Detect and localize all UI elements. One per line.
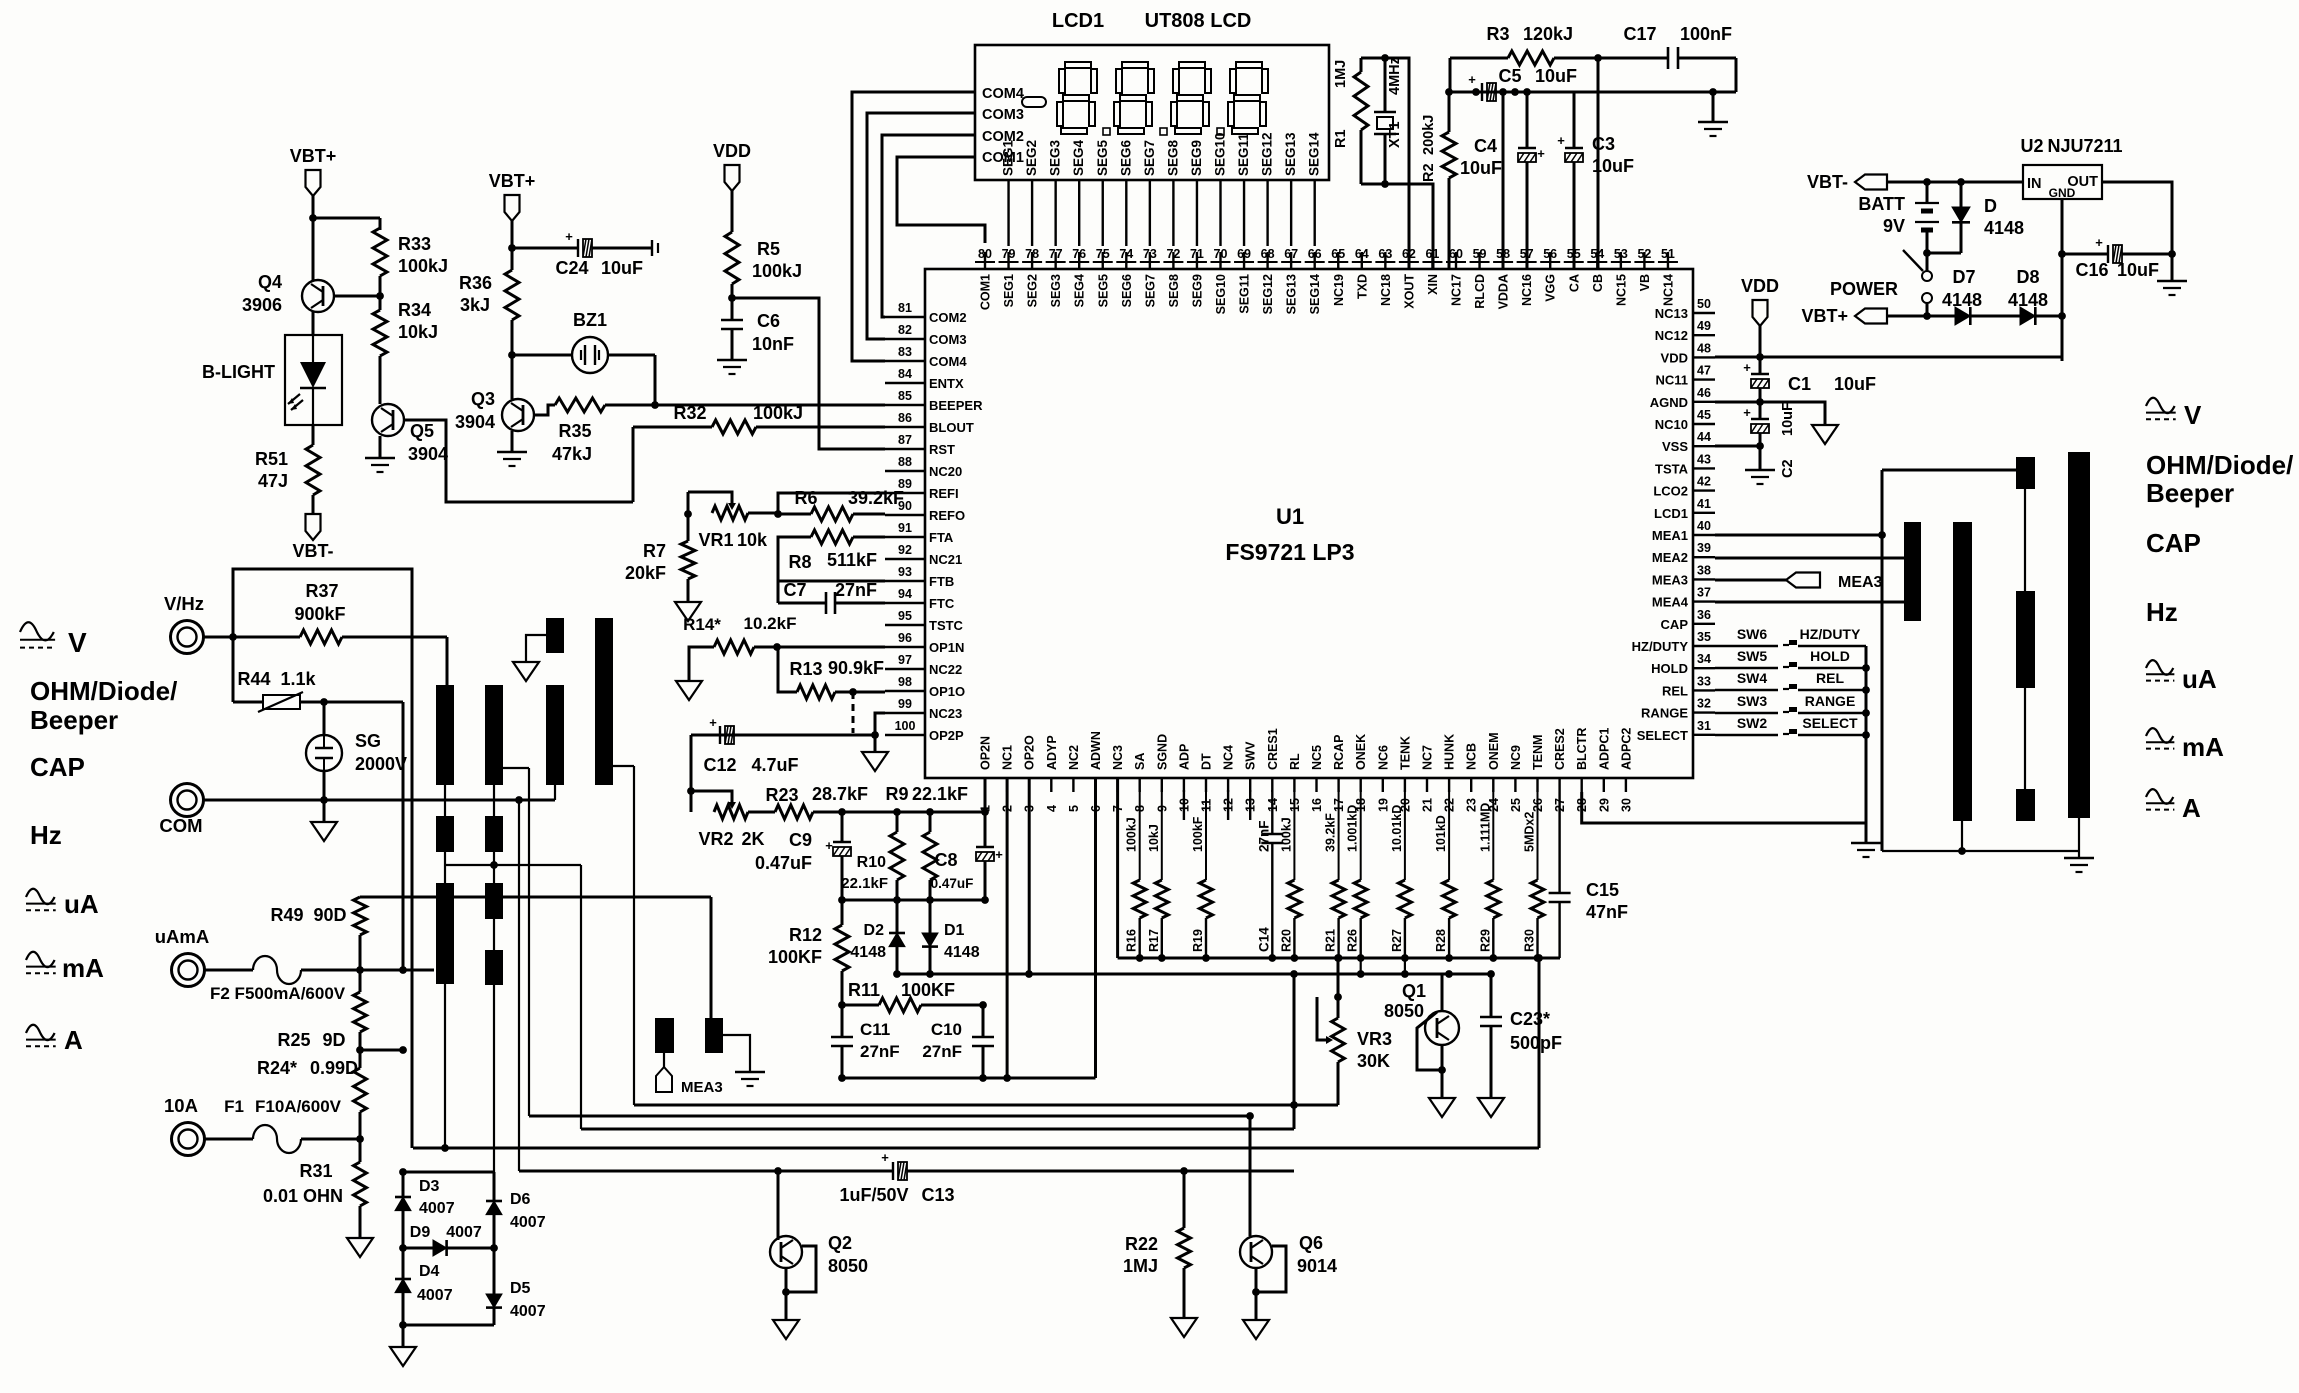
svg-text:32: 32 (1697, 697, 1711, 711)
capacitor C7 (777, 581, 780, 603)
svg-text:69: 69 (1237, 247, 1251, 261)
svg-text:84: 84 (898, 367, 912, 381)
wire (1887, 315, 1955, 318)
svg-text:D9: D9 (410, 1224, 431, 1241)
svg-text:RCAP: RCAP (1332, 735, 1346, 770)
LCD minus segment (1022, 97, 1046, 107)
svg-text:FS9721 LP3: FS9721 LP3 (1225, 539, 1354, 565)
wire REFI (778, 493, 885, 514)
svg-text:38: 38 (1697, 563, 1711, 577)
svg-text:D8: D8 (2016, 267, 2039, 287)
ground (676, 681, 702, 700)
resistor R2 (1448, 92, 1451, 132)
LCD digit 1 (1057, 62, 1097, 134)
switch contact bar col3 mid (2016, 591, 2035, 688)
resistor R12 (841, 900, 844, 925)
IC U1 FS9721 LP3 body (925, 269, 1693, 778)
switch bar col4 (595, 618, 613, 785)
svg-text:52: 52 (1637, 247, 1651, 261)
diode D4 (402, 1248, 405, 1279)
wire cross link (445, 864, 581, 866)
svg-text:31: 31 (1697, 719, 1711, 733)
switch contact bar MEA3 b (705, 1018, 723, 1053)
wire COM2 (882, 135, 975, 317)
wire MEA1 (1715, 534, 1882, 537)
svg-text:82: 82 (898, 323, 912, 337)
svg-text:CRES1: CRES1 (1266, 728, 1280, 770)
ground (379, 436, 382, 458)
svg-text:R31: R31 (299, 1161, 332, 1181)
capacitor C6 (721, 319, 743, 322)
svg-text:SEG3: SEG3 (1049, 274, 1063, 307)
switch SW2 SELECT (1715, 734, 1778, 736)
wire rail2 (897, 973, 1491, 976)
wire bus2 (529, 1115, 1250, 1118)
wire R44 branch (232, 637, 235, 702)
svg-text:NC6: NC6 (1376, 745, 1390, 770)
svg-text:B-LIGHT: B-LIGHT (202, 362, 275, 382)
transistor Q2 (777, 1171, 780, 1240)
svg-text:+: + (881, 1150, 889, 1165)
svg-text:BLOUT: BLOUT (929, 420, 974, 435)
label A (2146, 789, 2173, 804)
svg-text:R16: R16 (1125, 929, 1139, 952)
ground (1865, 823, 1868, 843)
svg-text:93: 93 (898, 565, 912, 579)
svg-text:27nF: 27nF (922, 1042, 962, 1061)
svg-text:MEA1: MEA1 (1652, 528, 1688, 543)
svg-text:Hz: Hz (30, 820, 62, 850)
svg-text:REFO: REFO (929, 508, 965, 523)
U1 top pins 80-51 (984, 252, 986, 269)
wire (323, 771, 326, 822)
svg-text:D7: D7 (1952, 267, 1975, 287)
svg-text:OP2P: OP2P (929, 728, 964, 743)
resistor R11 (842, 1004, 879, 1007)
svg-text:SEG5: SEG5 (1096, 274, 1110, 307)
svg-text:63: 63 (1378, 247, 1392, 261)
svg-text:R23: R23 (765, 785, 798, 805)
resistor R35 (555, 398, 605, 412)
wire BEEPER (605, 404, 885, 407)
svg-text:VB: VB (1638, 274, 1652, 291)
resistor R34 (379, 276, 382, 310)
svg-text:NC5: NC5 (1310, 745, 1324, 770)
wire (534, 405, 555, 415)
capacitor C1 (1751, 373, 1769, 375)
wire (360, 1049, 403, 1052)
svg-text:3906: 3906 (242, 295, 282, 315)
svg-text:5MDx2: 5MDx2 (1523, 812, 1537, 852)
svg-text:Beeper: Beeper (2146, 478, 2234, 508)
svg-text:1.111MD: 1.111MD (1478, 803, 1492, 852)
resistor R21 39.2kF (1338, 790, 1340, 880)
diode D6 (493, 1172, 496, 1201)
svg-text:NC13: NC13 (1655, 306, 1688, 321)
diode D5 (493, 1248, 496, 1294)
svg-text:1MJ: 1MJ (1333, 60, 1349, 88)
svg-text:49: 49 (1697, 319, 1711, 333)
svg-text:R6: R6 (794, 488, 817, 508)
svg-text:47nF: 47nF (1586, 902, 1628, 922)
ground (347, 1238, 373, 1257)
svg-text:4.7uF: 4.7uF (751, 755, 798, 775)
wire COM3 (867, 113, 975, 339)
svg-text:ONEK: ONEK (1354, 734, 1368, 770)
svg-text:30: 30 (1619, 798, 1633, 812)
svg-text:R8: R8 (788, 552, 811, 572)
svg-text:25: 25 (1509, 798, 1523, 812)
svg-text:100kJ: 100kJ (398, 256, 448, 276)
svg-text:U1: U1 (1276, 504, 1304, 529)
svg-text:REL: REL (1816, 670, 1844, 686)
power tag VDD (2) (1753, 300, 1768, 326)
svg-text:22.1kF: 22.1kF (912, 784, 968, 804)
wire (300, 701, 403, 704)
svg-text:NC23: NC23 (929, 706, 962, 721)
svg-text:47: 47 (1697, 364, 1711, 378)
wire OP2P (691, 734, 875, 737)
switch SW3 RANGE (1715, 712, 1778, 714)
svg-text:C17: C17 (1623, 24, 1656, 44)
svg-text:D2: D2 (864, 922, 885, 939)
svg-text:MEA4: MEA4 (1652, 595, 1689, 610)
ground (785, 1268, 788, 1320)
power tag VBT- (1855, 175, 1887, 190)
svg-text:R25: R25 (277, 1030, 310, 1050)
svg-text:47J: 47J (258, 471, 288, 491)
wire col3 link (554, 785, 556, 800)
svg-text:NC14: NC14 (1661, 274, 1675, 306)
wire col2 links (493, 785, 495, 816)
svg-text:VR1: VR1 (698, 530, 733, 550)
svg-text:VBT+: VBT+ (1801, 306, 1848, 326)
svg-text:NC12: NC12 (1655, 328, 1688, 343)
svg-text:Hz: Hz (2146, 597, 2178, 627)
svg-text:SEG1: SEG1 (1001, 139, 1016, 176)
svg-text:R51: R51 (255, 449, 288, 469)
svg-text:A: A (64, 1025, 83, 1055)
wire (690, 735, 693, 791)
svg-text:+: + (1743, 360, 1751, 375)
svg-text:97: 97 (898, 653, 912, 667)
switch contact bar col2 (1953, 522, 1972, 821)
spark gap SG 2000V (323, 702, 326, 735)
svg-text:44: 44 (1697, 430, 1711, 444)
svg-text:FTB: FTB (929, 574, 954, 589)
svg-text:16: 16 (1310, 798, 1324, 812)
svg-text:uA: uA (2182, 664, 2217, 694)
LCD decimal points (1103, 128, 1110, 135)
svg-text:COM1: COM1 (979, 274, 993, 310)
power tag VBT+ (306, 170, 321, 196)
svg-text:35: 35 (1697, 630, 1711, 644)
svg-text:27nF: 27nF (1256, 820, 1271, 852)
svg-text:NC3: NC3 (1111, 745, 1125, 770)
svg-text:4007: 4007 (510, 1303, 546, 1320)
svg-text:XIN: XIN (1426, 274, 1440, 295)
svg-text:R27: R27 (1390, 929, 1404, 952)
svg-text:8050: 8050 (1384, 1001, 1424, 1021)
svg-text:TSTC: TSTC (929, 618, 964, 633)
svg-text:LCO2: LCO2 (1653, 484, 1688, 499)
svg-text:R22: R22 (1125, 1234, 1158, 1254)
switch contact bar MEA3 a (655, 1018, 674, 1053)
svg-text:NCB: NCB (1465, 743, 1479, 770)
svg-text:R33: R33 (398, 234, 431, 254)
svg-text:10kJ: 10kJ (1147, 824, 1161, 852)
svg-text:TENK: TENK (1398, 736, 1412, 770)
svg-text:CRES2: CRES2 (1553, 728, 1567, 770)
svg-text:SEG8: SEG8 (1167, 274, 1181, 307)
transistor Q1 (1441, 974, 1444, 1010)
ground (1171, 1318, 1197, 1337)
svg-text:SEG14: SEG14 (1308, 274, 1322, 314)
svg-text:10kJ: 10kJ (398, 322, 438, 342)
wire BLCTR (1582, 792, 1866, 823)
resistor R29 1.111MD (1492, 790, 1494, 880)
svg-text:90.9kF: 90.9kF (828, 658, 884, 678)
svg-text:8050: 8050 (828, 1256, 868, 1276)
wire col2 to bus2 (503, 767, 529, 769)
svg-text:1uF/50V: 1uF/50V (839, 1185, 908, 1205)
svg-text:10uF: 10uF (2117, 260, 2159, 280)
svg-text:TSTA: TSTA (1655, 461, 1689, 476)
svg-text:FTC: FTC (929, 596, 955, 611)
wire CB (1597, 58, 1600, 269)
capacitor C10 (982, 1005, 985, 1037)
svg-text:COM3: COM3 (929, 332, 967, 347)
ground (2171, 254, 2174, 281)
wire node BLOUT to Q5 base (404, 420, 633, 502)
svg-text:59: 59 (1473, 247, 1487, 261)
switch bar col3 top (546, 618, 564, 653)
svg-text:SEG10: SEG10 (1214, 274, 1228, 314)
resistor R20 100kJ (1293, 790, 1295, 880)
wire dashed (852, 692, 855, 733)
svg-text:SEG9: SEG9 (1190, 274, 1204, 307)
svg-text:9V: 9V (1883, 216, 1905, 236)
svg-text:79: 79 (1002, 247, 1016, 261)
svg-text:NC2: NC2 (1067, 745, 1081, 770)
svg-text:100kJ: 100kJ (752, 261, 802, 281)
U1 left pins 81-100 (885, 316, 925, 318)
svg-text:SEG13: SEG13 (1283, 132, 1298, 176)
svg-text:80: 80 (978, 247, 992, 261)
capacitor C16 (2062, 253, 2108, 256)
svg-text:+: + (1743, 405, 1751, 420)
wire (1927, 252, 1961, 255)
svg-text:U2: U2 (2020, 136, 2043, 156)
resistor VR2 potentiometer (714, 805, 748, 819)
svg-text:VBT-: VBT- (292, 541, 333, 561)
svg-text:73: 73 (1143, 247, 1157, 261)
switch contact bar col3 low (2016, 789, 2035, 821)
svg-text:D: D (1984, 196, 1997, 216)
svg-text:D3: D3 (419, 1178, 440, 1195)
svg-text:C16: C16 (2075, 260, 2108, 280)
svg-text:C13: C13 (921, 1185, 954, 1205)
transistor Q6 (1249, 1116, 1252, 1236)
capacitor C17 (1667, 47, 1670, 69)
wire (511, 221, 514, 270)
capacitor C2 (1751, 418, 1769, 420)
resistor R5 (725, 232, 739, 284)
svg-text:4148: 4148 (1942, 290, 1982, 310)
resistor VR1 potentiometer (712, 506, 748, 520)
svg-text:500pF: 500pF (1510, 1033, 1562, 1053)
svg-text:0.47uF: 0.47uF (931, 876, 974, 891)
svg-text:SW3: SW3 (1737, 693, 1768, 709)
svg-text:R35: R35 (558, 421, 591, 441)
svg-text:NC15: NC15 (1614, 274, 1628, 306)
resistor R51 (306, 445, 320, 495)
svg-text:4148: 4148 (850, 944, 886, 961)
wire OP2N pin1 (984, 778, 987, 812)
switch bar col2 main (485, 685, 503, 785)
switch bar col2 row3a (485, 883, 503, 919)
svg-text:C1: C1 (1788, 374, 1811, 394)
resistor R24 (354, 1068, 367, 1112)
svg-text:SW2: SW2 (1737, 715, 1768, 731)
svg-text:C2: C2 (1780, 459, 1796, 478)
svg-text:V/Hz: V/Hz (164, 593, 204, 614)
ground (874, 735, 877, 752)
svg-text:SEG7: SEG7 (1142, 140, 1157, 176)
svg-text:COM2: COM2 (929, 310, 967, 325)
svg-text:Q4: Q4 (258, 272, 282, 292)
svg-text:NC19: NC19 (1332, 274, 1346, 306)
svg-text:SW4: SW4 (1737, 670, 1768, 686)
svg-text:27nF: 27nF (860, 1042, 900, 1061)
ground (735, 1071, 765, 1073)
resistor R33 (373, 228, 387, 276)
capacitor C5 (1481, 83, 1483, 101)
wire (1759, 326, 1762, 374)
wire (1735, 58, 1738, 92)
wire (204, 636, 300, 639)
wire bus3 (581, 1128, 1294, 1131)
svg-text:10uF: 10uF (1780, 402, 1796, 436)
svg-text:99: 99 (898, 697, 912, 711)
svg-text:SELECT: SELECT (1637, 728, 1688, 743)
svg-text:R7: R7 (643, 541, 666, 561)
resistor R16 100kJ (1139, 790, 1141, 880)
diode D1 (929, 900, 932, 933)
svg-text:XT1: XT1 (1387, 121, 1403, 148)
svg-text:BLCTR: BLCTR (1575, 728, 1589, 770)
switch bar col2 row2 (485, 816, 503, 852)
svg-text:120kJ: 120kJ (1523, 24, 1573, 44)
svg-text:COM4: COM4 (982, 86, 1024, 102)
svg-text:100KF: 100KF (901, 980, 955, 1000)
svg-text:87: 87 (898, 433, 912, 447)
svg-text:MEA2: MEA2 (1652, 550, 1688, 565)
svg-text:60: 60 (1449, 247, 1463, 261)
svg-text:C11: C11 (860, 1020, 890, 1039)
svg-text:VDD: VDD (1661, 350, 1688, 365)
resistor R32 (712, 420, 756, 434)
svg-text:R24*: R24* (257, 1058, 297, 1078)
svg-text:51: 51 (1661, 247, 1675, 261)
svg-text:REL: REL (1662, 683, 1688, 698)
svg-text:NJU7211: NJU7211 (2047, 136, 2122, 156)
wire col3 links (2024, 489, 2026, 591)
wire COM (204, 799, 555, 802)
switch SW6 HZ/DUTY (1715, 645, 1778, 647)
svg-text:SEG14: SEG14 (1307, 132, 1322, 176)
wires LCD segments to U1 (1007, 180, 1009, 246)
U1 right pins 50-31 (1693, 312, 1715, 314)
svg-text:R11: R11 (848, 980, 880, 1000)
svg-text:SEG4: SEG4 (1073, 274, 1087, 307)
svg-text:100kJ: 100kJ (1125, 817, 1139, 852)
svg-text:10k: 10k (737, 530, 768, 550)
wire col4 to bus1 (613, 765, 634, 767)
ground (1478, 1098, 1504, 1117)
wire (723, 1035, 750, 1072)
svg-text:F1: F1 (224, 1097, 244, 1116)
svg-text:+: + (2095, 235, 2103, 250)
jack COM (171, 784, 204, 817)
resistor R14 (714, 640, 754, 654)
svg-text:4007: 4007 (417, 1287, 453, 1304)
svg-text:9014: 9014 (1297, 1256, 1337, 1276)
svg-text:R5: R5 (757, 239, 780, 259)
svg-text:ADYP: ADYP (1045, 735, 1059, 770)
wire BLOUT (633, 426, 712, 429)
resistor R37 (300, 630, 342, 644)
svg-text:0.01 OHN: 0.01 OHN (263, 1186, 343, 1206)
switch contact bar col4 (2068, 452, 2090, 818)
svg-text:R37: R37 (305, 581, 338, 601)
svg-text:4148: 4148 (944, 944, 980, 961)
wire COM1 (897, 157, 985, 243)
svg-text:66: 66 (1308, 247, 1322, 261)
svg-text:C5: C5 (1498, 66, 1521, 86)
transistor Q5 (372, 404, 404, 436)
wire rail2 drops (1360, 958, 1362, 974)
wire bridge top (403, 1171, 494, 1174)
svg-text:100nF: 100nF (1680, 24, 1732, 44)
svg-text:SEG12: SEG12 (1260, 132, 1275, 176)
svg-text:OP2O: OP2O (1023, 735, 1037, 770)
svg-text:NC21: NC21 (929, 552, 962, 567)
svg-text:39.2kF: 39.2kF (848, 488, 904, 508)
svg-text:C24: C24 (555, 258, 588, 278)
svg-text:SEG1: SEG1 (1002, 274, 1016, 307)
svg-text:SW5: SW5 (1737, 648, 1768, 664)
svg-text:IN: IN (2027, 176, 2042, 192)
svg-text:AGND: AGND (1650, 395, 1688, 410)
capacitor C15 47nF (1558, 792, 1560, 893)
svg-text:39: 39 (1697, 541, 1711, 555)
wire BLOUT vertical (632, 427, 635, 502)
svg-text:33: 33 (1697, 674, 1711, 688)
resistor R22 (1183, 1171, 1186, 1228)
svg-text:R9: R9 (885, 784, 908, 804)
ground (1712, 92, 1715, 122)
svg-text:OHM/Diode/: OHM/Diode/ (30, 676, 177, 706)
svg-text:BZ1: BZ1 (573, 310, 607, 330)
svg-text:R34: R34 (398, 300, 431, 320)
svg-text:19: 19 (1376, 798, 1390, 812)
resistor R49 (359, 896, 362, 899)
svg-text:100kF: 100kF (1191, 816, 1205, 852)
diode D2 (896, 900, 899, 933)
power tag VBT- (312, 495, 315, 514)
resistor R27 10.01kD (1404, 790, 1406, 880)
